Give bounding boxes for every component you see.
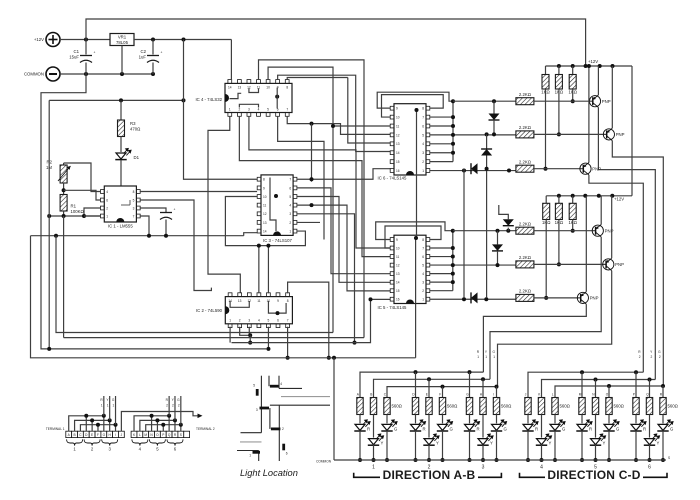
- junction common: [385, 458, 389, 462]
- svg-text:TERMINAL 2: TERMINAL 2: [196, 427, 215, 431]
- junction: [415, 108, 419, 112]
- junction: [114, 423, 118, 427]
- transistor Q5: [603, 259, 614, 270]
- svg-text:1: 1: [101, 404, 103, 408]
- svg-text:L: L: [552, 393, 554, 397]
- svg-text:560Ω: 560Ω: [668, 404, 679, 409]
- wire IC3 pin1 wrap loop to pin10: [225, 197, 305, 246]
- junction common: [661, 458, 665, 462]
- svg-text:P: P: [162, 433, 164, 437]
- junction: [182, 38, 186, 42]
- wire column riser: [635, 372, 637, 397]
- svg-text:P: P: [633, 393, 635, 397]
- wire IC4 internal bracket bottom: [239, 104, 258, 107]
- svg-text:2: 2: [106, 207, 108, 211]
- junction: [451, 229, 455, 233]
- transistor Q3: [580, 163, 591, 174]
- capacitor C1: [85, 40, 87, 55]
- svg-text:7: 7: [289, 178, 291, 182]
- junction: [598, 64, 602, 68]
- wire wrap rail S ground: [31, 236, 416, 358]
- wire IC4 pin7 down to IC3 pin7 and IC6 pin12: [287, 116, 390, 134]
- junction: [84, 414, 88, 418]
- junction: [451, 246, 455, 250]
- junction: [557, 64, 561, 68]
- junction: [544, 167, 548, 171]
- svg-text:12: 12: [396, 133, 400, 137]
- svg-text:E: E: [426, 393, 428, 397]
- svg-text:M: M: [579, 393, 582, 397]
- svg-text:4: 4: [258, 319, 260, 323]
- wire column riser: [595, 380, 597, 398]
- svg-text:TERMINAL 1: TERMINAL 1: [46, 427, 65, 431]
- wire terminal Y2 net: [140, 420, 175, 431]
- junction: [610, 194, 614, 198]
- junction: [96, 423, 100, 427]
- svg-text:3: 3: [482, 465, 485, 471]
- wire Q3 emitter: [588, 66, 590, 163]
- junction: [580, 370, 584, 374]
- resistor R7 2.2K: [516, 227, 534, 234]
- svg-text:IC 5 - 74LS145: IC 5 - 74LS145: [378, 305, 408, 310]
- wire R base line to Q1: [534, 100, 593, 102]
- wire IC2 pin2 pin3 bracket below: [240, 327, 251, 336]
- junction: [507, 169, 511, 173]
- junction: [485, 167, 489, 171]
- wire wrap rail Q common loop: [41, 74, 267, 349]
- junction: [611, 64, 615, 68]
- junction: [151, 38, 155, 42]
- capacitor C3: [140, 208, 166, 212]
- wire Y2 line gap fix: [515, 263, 517, 266]
- wire column riser: [469, 372, 471, 397]
- junction IC2 internal: [276, 311, 280, 315]
- svg-text:12: 12: [396, 263, 400, 267]
- connector terminal strip: [66, 431, 190, 437]
- svg-text:9: 9: [277, 299, 279, 303]
- svg-text:1: 1: [372, 465, 375, 471]
- IC1 LM555 body: [101, 186, 141, 229]
- junction: [90, 418, 94, 422]
- junction: [150, 414, 154, 418]
- svg-text:8: 8: [422, 238, 424, 242]
- junction: [84, 38, 88, 42]
- wire IC3 pin3 right bus down: [297, 214, 355, 343]
- wire Q6 collector to R1 feeder: [483, 304, 586, 372]
- junction common: [468, 458, 472, 462]
- svg-text:5: 5: [268, 319, 270, 323]
- wire rail S up to IC5 bottom: [415, 304, 417, 358]
- junction: [584, 64, 588, 68]
- svg-text:7: 7: [422, 115, 424, 119]
- wire IC6 pin9 wrap over top: [377, 92, 453, 108]
- junction: [119, 98, 123, 102]
- wire IC6 pin8 wrap to pin10: [382, 95, 444, 117]
- junction common: [648, 458, 652, 462]
- svg-text:8: 8: [422, 107, 424, 111]
- svg-text:R: R: [367, 426, 370, 431]
- junction: [506, 229, 510, 233]
- LED Q yellow: [649, 415, 651, 438]
- junction IC3 internal: [274, 194, 278, 198]
- junction: [62, 188, 66, 192]
- LED I green: [496, 415, 498, 424]
- wire IC4 internal: [276, 88, 278, 109]
- wire G2 base line to Q6: [534, 297, 580, 299]
- junction: [648, 378, 652, 382]
- wire +12V rail top group: [546, 65, 633, 67]
- wire IC4 internal bracket top: [249, 88, 259, 92]
- wire IC5 pin3 stub: [429, 281, 452, 283]
- junction common: [607, 458, 611, 462]
- junction common: [427, 458, 431, 462]
- junction: [62, 214, 66, 218]
- junction: [147, 234, 151, 238]
- resistor R14 1K: [558, 196, 560, 204]
- junction: [155, 418, 159, 422]
- svg-text:R3: R3: [130, 121, 136, 126]
- wire terminal J common with arrow: [121, 412, 199, 432]
- svg-text:IC 6 - 74LS145: IC 6 - 74LS145: [378, 176, 408, 181]
- svg-text:13: 13: [238, 299, 242, 303]
- LED P red: [635, 415, 637, 424]
- LED J red: [527, 415, 529, 424]
- svg-text:C1: C1: [74, 49, 80, 54]
- wire R10 to G base line: [545, 89, 547, 169]
- junction: [167, 414, 171, 418]
- svg-text:9: 9: [396, 107, 398, 111]
- junction: [47, 214, 51, 218]
- svg-text:3: 3: [256, 408, 258, 412]
- svg-text:Y: Y: [603, 441, 606, 446]
- junction: [451, 99, 455, 103]
- wire R11 to Y base line: [558, 89, 560, 134]
- junction common: [495, 458, 499, 462]
- wire IC3 internal: [270, 178, 276, 232]
- junction: [179, 423, 183, 427]
- junction: [594, 378, 598, 382]
- svg-text:D1: D1: [134, 155, 140, 160]
- wire IC2 pin11 riser from IC3 loop: [258, 246, 260, 294]
- junction: [182, 98, 186, 102]
- svg-text:R: R: [423, 426, 426, 431]
- svg-text:C2: C2: [141, 49, 147, 54]
- svg-text:3: 3: [289, 212, 291, 216]
- junction: [557, 194, 561, 198]
- svg-text:16: 16: [396, 169, 400, 173]
- svg-text:3: 3: [248, 107, 250, 111]
- junction common: [441, 458, 445, 462]
- svg-text:6: 6: [106, 199, 108, 203]
- svg-text:13: 13: [396, 272, 400, 276]
- wire IC6 pin3 stub: [429, 152, 453, 154]
- wire IC3 pin2 stub: [297, 221, 320, 223]
- wire 555 pin4 to R2 top: [64, 163, 101, 192]
- svg-text:10: 10: [396, 246, 400, 250]
- svg-text:B: B: [74, 433, 76, 437]
- wire 555 pin3 output to IC3 pin9: [140, 191, 257, 193]
- diode D5 chain: [507, 228, 509, 231]
- resistor R5 2.2K: [516, 131, 534, 138]
- wire Q3 collector to R2 feeder: [589, 175, 643, 372]
- IC U5 74LS145: [378, 235, 430, 310]
- svg-text:5: 5: [422, 263, 424, 267]
- wire IC2 pin5 to rail Q: [267, 327, 269, 349]
- wire IC2 internal bracket: [230, 301, 249, 307]
- resistor R3: [120, 100, 122, 120]
- resistor R15 1K: [572, 196, 574, 204]
- svg-text:Y: Y: [381, 441, 384, 446]
- junction: [54, 234, 58, 238]
- potentiometer R2: [63, 163, 65, 165]
- wire +12V to VR1: [60, 39, 110, 41]
- junction: [468, 370, 472, 374]
- wire x=183.5 riser to IC3 pin8: [184, 40, 258, 180]
- svg-text:1: 1: [229, 319, 231, 323]
- node stub R1: [103, 396, 105, 416]
- svg-text:6: 6: [289, 186, 291, 190]
- transistor Q6: [577, 292, 588, 303]
- junction: [102, 414, 106, 418]
- junction: [571, 64, 575, 68]
- wire terminal Y1 net: [75, 420, 110, 431]
- junction: [634, 370, 638, 374]
- svg-text:560Ω: 560Ω: [501, 404, 512, 409]
- LED C green: [386, 415, 388, 424]
- wire IC5 pin5 Y2 line: [429, 264, 516, 266]
- wire IC5 pin7 stub: [429, 247, 452, 249]
- svg-text:I: I: [493, 393, 494, 397]
- svg-text:PNP: PNP: [590, 296, 599, 301]
- wire G base line to Q3: [534, 168, 583, 170]
- wire R15 to R2 base line: [572, 220, 574, 231]
- LED R green: [662, 415, 664, 424]
- svg-text:3: 3: [248, 319, 250, 323]
- wire column riser: [496, 387, 498, 398]
- junction: [597, 194, 601, 198]
- resistor R4 2.2K: [516, 98, 534, 105]
- svg-text:6: 6: [648, 465, 651, 471]
- wire IC2 internal path: [268, 301, 286, 313]
- svg-text:2: 2: [422, 289, 424, 293]
- wire IC5 pin4 stub: [429, 273, 452, 275]
- resistor R6 2.2K: [516, 165, 534, 172]
- wire IC6 pin4 stub: [429, 143, 453, 145]
- wire +5 left riser to rail Q: [48, 100, 50, 349]
- wire R13 to G2 base line: [545, 220, 547, 298]
- junction: [286, 356, 290, 360]
- wire Q4 collector to Y1 feeder: [490, 237, 601, 379]
- junction: [257, 244, 261, 248]
- junction common: [414, 458, 418, 462]
- node stub G2: [180, 396, 182, 425]
- diode D4 on G line: [471, 163, 478, 174]
- svg-text:1: 1: [493, 355, 495, 359]
- wire terminal R1 net: [69, 416, 104, 431]
- wire IC5 bus bottom to pin2: [429, 290, 452, 292]
- LED D red: [415, 415, 417, 424]
- svg-text:1: 1: [107, 404, 109, 408]
- svg-text:3: 3: [422, 151, 424, 155]
- wire top +12V rail: [86, 19, 586, 66]
- wire IC6 pin6 stub: [429, 125, 453, 127]
- LED H yellow: [482, 415, 484, 438]
- junction: [427, 377, 431, 381]
- svg-text:+: +: [94, 51, 96, 55]
- svg-text:16: 16: [396, 298, 400, 302]
- wire IC4 pin6 down bus to IC5 pin11: [278, 116, 324, 240]
- LED N yellow: [595, 415, 597, 438]
- junction: [492, 132, 496, 136]
- wire IC3 pin5 right bus to IC5 pin14: [297, 197, 391, 283]
- LED F green: [442, 415, 444, 424]
- svg-text:F: F: [97, 433, 99, 437]
- junction: [492, 99, 496, 103]
- svg-text:1: 1: [249, 454, 251, 458]
- wire column riser: [442, 387, 444, 398]
- wire rail S to COMMON LED rail: [333, 358, 335, 460]
- svg-text:7: 7: [287, 319, 289, 323]
- junction: [481, 377, 485, 381]
- junction: [414, 236, 418, 240]
- svg-text:COMMON: COMMON: [316, 460, 332, 464]
- node stub Y2: [174, 396, 176, 420]
- wire column riser: [581, 372, 583, 397]
- svg-text:5: 5: [253, 384, 255, 388]
- svg-text:E: E: [91, 433, 93, 437]
- resistor R11 1K: [558, 66, 560, 75]
- svg-text:8: 8: [286, 86, 288, 90]
- IC U4 74LS32: [195, 80, 292, 117]
- wire 555 pin1 ground: [84, 215, 101, 217]
- junction: [173, 418, 177, 422]
- svg-text:R1: R1: [71, 204, 77, 209]
- svg-text:5: 5: [289, 195, 291, 199]
- wire IC6 bus bottom to pin2: [429, 161, 453, 163]
- wire 555 pin6 to R1 junction: [64, 190, 101, 200]
- junction common: [540, 458, 544, 462]
- svg-text:8: 8: [263, 178, 265, 182]
- wire 555 pin2 down to ground row: [84, 208, 101, 216]
- svg-text:7: 7: [422, 246, 424, 250]
- terminal +12V input: [46, 33, 60, 47]
- junction common: [634, 458, 638, 462]
- svg-text:12: 12: [263, 212, 267, 216]
- svg-text:1: 1: [477, 355, 479, 359]
- junction: [462, 169, 466, 173]
- regulator VR1 78L05: [110, 34, 134, 46]
- wire +12V rail lower group: [546, 195, 632, 197]
- svg-text:5: 5: [133, 199, 135, 203]
- wire R12 to R base line: [572, 89, 574, 101]
- junction: [151, 72, 155, 76]
- svg-text:2.2KΩ: 2.2KΩ: [519, 160, 532, 165]
- junction: [414, 370, 418, 374]
- transistor Q1: [589, 96, 600, 107]
- wire 555 pin7 to ground rail: [140, 216, 149, 236]
- junction: [451, 272, 455, 276]
- junction: [451, 280, 455, 284]
- node light bars: [253, 386, 284, 452]
- svg-text:7: 7: [286, 107, 288, 111]
- resistor R9 2.2K: [516, 294, 534, 301]
- wire column riser: [662, 386, 664, 398]
- svg-text:11: 11: [257, 299, 261, 303]
- svg-text:R: R: [535, 426, 538, 431]
- junction: [587, 64, 591, 68]
- wire Q2 emitter: [611, 66, 613, 128]
- wire Q6 emitter: [585, 196, 587, 292]
- wire IC6 pin7 stub: [429, 116, 453, 118]
- svg-text:2.2KΩ: 2.2KΩ: [519, 222, 532, 227]
- svg-text:4: 4: [540, 465, 543, 471]
- svg-text:Light Location: Light Location: [240, 468, 298, 478]
- svg-text:PNP: PNP: [592, 167, 601, 172]
- junction common: [553, 458, 557, 462]
- wire ground rail: [31, 235, 244, 237]
- svg-text:PNP: PNP: [616, 132, 625, 137]
- wire IC5 pin9 wrap over top: [376, 222, 453, 240]
- svg-text:1: 1: [485, 355, 487, 359]
- junction: [164, 234, 168, 238]
- svg-text:PNP: PNP: [602, 99, 611, 104]
- svg-text:2: 2: [422, 160, 424, 164]
- svg-text:11: 11: [396, 255, 400, 259]
- wire IC4 pin8 up bus to IC6 pin13: [287, 78, 348, 81]
- wire column riser: [649, 380, 651, 398]
- junction IC4 internal: [275, 95, 279, 99]
- svg-text:14: 14: [396, 281, 400, 285]
- svg-text:1uF: 1uF: [139, 55, 147, 60]
- junction: [120, 72, 124, 76]
- wire IC5 pin6 stub: [429, 256, 452, 258]
- wire IC6 right bus: [452, 101, 454, 161]
- wire ground rail to IC3 pin14: [244, 233, 257, 236]
- svg-text:+: +: [161, 51, 163, 55]
- svg-text:Y: Y: [657, 441, 660, 446]
- wire column riser: [482, 379, 484, 397]
- wire Q1 emitter: [597, 66, 599, 95]
- svg-text:3: 3: [133, 207, 135, 211]
- wire IC6 pin1 G line: [429, 170, 516, 172]
- junction: [441, 385, 445, 389]
- wire IC6 pin11 feed: [333, 125, 391, 127]
- wire Q1 collector to Y2 feeder: [598, 107, 655, 379]
- wire Q5 collector to G1 feeder: [498, 271, 612, 387]
- resistor R1: [60, 195, 67, 212]
- svg-text:2.2KΩ: 2.2KΩ: [519, 125, 532, 130]
- wire IC2 pin8 riser right to ground rail: [288, 282, 329, 358]
- junction: [161, 423, 165, 427]
- junction: [451, 263, 455, 267]
- wire IC5 pin1 G2 line: [429, 298, 516, 300]
- svg-text:B: B: [370, 393, 372, 397]
- junction: [661, 384, 665, 388]
- wire R2 base line to Q4: [534, 230, 595, 232]
- junction: [451, 124, 455, 128]
- junction: [583, 194, 587, 198]
- junction: [557, 132, 561, 136]
- wire COMMON: [60, 73, 153, 75]
- node DIRECTION A-B bracket: [354, 473, 502, 478]
- svg-text:IC 2 - 74L590: IC 2 - 74L590: [196, 308, 223, 313]
- svg-text:10: 10: [396, 115, 400, 119]
- svg-text:560Ω: 560Ω: [560, 404, 571, 409]
- junction: [266, 244, 270, 248]
- resistor R10 1K: [545, 66, 547, 75]
- svg-text:IC 3 - 74LS107: IC 3 - 74LS107: [263, 238, 293, 243]
- LED G red: [469, 415, 471, 424]
